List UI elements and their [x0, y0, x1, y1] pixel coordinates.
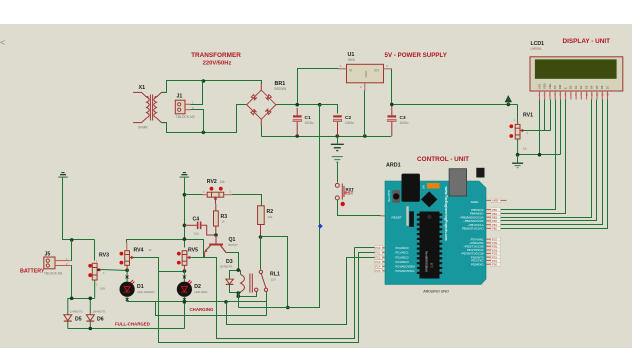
wire J1 pin2: [191, 110, 204, 133]
potentiometer RV1: [509, 124, 513, 128]
power +5V arrow: [505, 96, 511, 102]
capacitor C1: [296, 108, 298, 115]
resistor R3: [215, 204, 217, 211]
svg-text:CHARGING: CHARGING: [190, 307, 214, 312]
junction: [390, 103, 394, 107]
wire LCD signal 1 to arduino: [501, 100, 556, 210]
wire R2 to 12V rail: [261, 237, 288, 308]
svg-text:CONTROL - UNIT: CONTROL - UNIT: [417, 156, 469, 163]
svg-text:PB0/ICP1/CLKO: PB0/ICP1/CLKO: [462, 227, 484, 231]
Arduino MCU chip: [417, 214, 420, 216]
junction: [89, 297, 93, 301]
wire relay throw1: [239, 292, 257, 297]
wire 12V node: [298, 104, 320, 106]
LCD pin names: [537, 83, 609, 89]
svg-text:D6: D6: [600, 85, 604, 89]
ground (RV1): [512, 162, 523, 164]
svg-text:PC5/ADC5/SCL: PC5/ADC5/SCL: [396, 269, 416, 273]
svg-text:J1: J1: [177, 94, 183, 100]
svg-text:D4: D4: [590, 85, 594, 89]
wire LCD signal 2 to arduino: [501, 100, 566, 214]
junction: [286, 306, 290, 310]
svg-text:TBLOCK-M2: TBLOCK-M2: [176, 115, 195, 119]
svg-text:RST: RST: [345, 191, 354, 196]
wire relay throw2 down: [266, 292, 268, 316]
junction: [202, 131, 206, 135]
svg-text:Reset BTN: Reset BTN: [388, 190, 391, 202]
wire LCD signal 5 to arduino: [501, 100, 603, 225]
wire RV3 wiper to D1 node: [102, 270, 128, 271]
potentiometer RV3: [88, 264, 92, 268]
wire LCD signal 6 to arduino: [501, 100, 608, 229]
wire battery bottom rail: [68, 298, 95, 300]
svg-text:1k: 1k: [222, 220, 226, 224]
wire RV4 top rail to emitter node: [127, 240, 204, 258]
svg-text:E: E: [563, 87, 567, 89]
potentiometer RV4: [120, 252, 124, 256]
capacitor C3: [391, 104, 393, 115]
wire bridge - down: [261, 126, 263, 137]
wire R2 to relay common: [260, 237, 262, 270]
svg-text:C4: C4: [193, 217, 200, 223]
resistor R2: [258, 206, 265, 225]
battery B? cell symbols: [331, 144, 344, 150]
junction: [363, 134, 367, 138]
svg-text:D1: D1: [574, 85, 578, 89]
wire RV2 pin1: [185, 194, 203, 196]
wire bridge + to C1: [276, 104, 298, 106]
wire LCD VEE: [550, 100, 552, 131]
svg-text:D2: D2: [579, 85, 583, 89]
svg-text:PD0/RXD: PD0/RXD: [471, 262, 484, 266]
wire relay coil bottom to rail: [238, 293, 240, 308]
svg-text:RW: RW: [558, 84, 562, 89]
svg-text:10k: 10k: [268, 215, 273, 219]
origin marker (blue diamond): [318, 224, 323, 229]
svg-text:PB0: PB0: [492, 227, 497, 231]
junction: [202, 79, 206, 83]
wire U1 VO down: [391, 69, 393, 105]
transistor Q1 BC547: [215, 235, 217, 244]
svg-text:PC1: PC1: [375, 251, 381, 255]
svg-text:ARD1: ARD1: [386, 163, 401, 169]
LCD LCD1 LM016L: [530, 57, 623, 91]
svg-text:12V: 12V: [271, 278, 276, 282]
wire cathode sense to PC2: [227, 258, 375, 325]
svg-text:10k: 10k: [220, 180, 226, 184]
wire sense rail to relay throw: [156, 302, 267, 316]
svg-text:PB5: PB5: [492, 208, 497, 212]
svg-text:PC5: PC5: [375, 269, 381, 273]
wire LCD RW to gnd: [560, 100, 562, 155]
wire RV4 wiper to D2 node: [134, 258, 185, 272]
svg-text:PC4: PC4: [375, 265, 381, 269]
svg-text:VO: VO: [374, 69, 379, 73]
connector J1: [175, 100, 185, 114]
svg-text:5V - POWER SUPPLY: 5V - POWER SUPPLY: [385, 52, 448, 59]
svg-text:D7: D7: [605, 85, 609, 89]
wire D3 top: [230, 271, 239, 279]
potentiometer RV2: [210, 187, 214, 191]
junction: [538, 153, 542, 157]
wire RV2 pin2 to R2: [232, 195, 262, 206]
svg-text:www.TheEngineeringProjects.com: www.TheEngineeringProjects.com: [444, 186, 448, 241]
svg-text:VEE: VEE: [548, 84, 552, 89]
wire ground rail: [262, 136, 392, 138]
junction: [183, 224, 187, 228]
wire left ground rail: [63, 178, 95, 240]
svg-text:PC0: PC0: [375, 246, 381, 250]
svg-text:7805: 7805: [348, 58, 355, 62]
wire to battery: [337, 137, 339, 144]
junction: [336, 134, 340, 138]
junction: [295, 103, 299, 107]
LED D1 LED-GREEN: [126, 270, 128, 281]
LCD pins: [540, 91, 608, 100]
svg-text:ATMEGA328P-PU: ATMEGA328P-PU: [425, 251, 429, 272]
Arduino crystal: [406, 206, 408, 226]
svg-text:TBLOCK-M2: TBLOCK-M2: [44, 272, 62, 276]
junction: [183, 300, 187, 304]
capacitor C4: [184, 224, 196, 226]
wire LED cathode rail: [128, 301, 267, 303]
svg-text:PC0/ADC0: PC0/ADC0: [396, 246, 410, 250]
svg-text:PD0: PD0: [492, 263, 498, 267]
Arduino right pin names: [459, 200, 484, 266]
wire LCD VDD: [544, 100, 546, 131]
wire secondary top to bridge: [162, 81, 262, 93]
wire 5V to RV1: [517, 105, 519, 122]
svg-text:1000u: 1000u: [305, 121, 314, 125]
svg-text:D0: D0: [569, 85, 573, 89]
junction: [214, 233, 218, 237]
diode D5 1N4007: [67, 298, 69, 314]
wire button to arduino reset: [338, 200, 381, 216]
svg-text:PC2/ADC2: PC2/ADC2: [396, 256, 410, 260]
junction: [259, 235, 263, 239]
Arduino reset pin stub: [381, 215, 386, 217]
wire mid ground vertical: [184, 178, 186, 248]
svg-text:PC3/ADC3: PC3/ADC3: [396, 260, 410, 264]
wire sense rail to PC1: [159, 253, 375, 343]
svg-text:RS: RS: [553, 85, 557, 89]
button red indicator: [341, 202, 345, 206]
junction: [237, 294, 241, 298]
wire LCD signal 4 to arduino: [501, 100, 597, 221]
junction: [125, 268, 129, 272]
junction: [183, 237, 187, 241]
Arduino USB connector: [449, 169, 467, 196]
svg-text:RV1: RV1: [523, 113, 533, 119]
junction: [89, 327, 93, 331]
junction: [183, 193, 187, 197]
svg-text:D5: D5: [595, 85, 599, 89]
svg-text:VDD: VDD: [543, 83, 547, 89]
svg-text:TRANSFORMER: TRANSFORMER: [191, 52, 241, 59]
svg-text:ON: ON: [423, 185, 426, 189]
svg-text:D3: D3: [584, 85, 588, 89]
junction: [516, 153, 520, 157]
svg-text:1126: 1126: [431, 262, 434, 268]
wire D3 bottom: [230, 285, 239, 293]
junction: [237, 268, 241, 272]
svg-text:AREF: AREF: [492, 199, 499, 203]
svg-text:D5: D5: [75, 316, 82, 322]
wire D5D6 bottom rail: [68, 328, 185, 330]
svg-text:1000u: 1000u: [345, 121, 354, 125]
svg-text:XFMR: XFMR: [138, 126, 148, 130]
Arduino USB chip (diamond): [421, 191, 437, 207]
ground (mid): [183, 172, 186, 174]
svg-text:PC1/ADC1: PC1/ADC1: [396, 251, 410, 255]
junction: [237, 291, 241, 295]
Arduino left pin names: [396, 246, 416, 273]
wire C1 top to U1 VI: [298, 69, 339, 105]
Arduino right pin stubs: [486, 199, 491, 201]
junction: [318, 103, 322, 107]
svg-text:LED-RED: LED-RED: [194, 290, 208, 294]
svg-text:VSS: VSS: [537, 84, 541, 89]
wire to RV3 top: [94, 240, 96, 261]
connector J5: [44, 257, 55, 269]
capacitor C2: [333, 115, 342, 117]
push button RST: [335, 183, 339, 187]
svg-text:PC4/ADC4/SDA: PC4/ADC4/SDA: [396, 265, 416, 269]
wire Q1 collector to relay: [227, 253, 239, 271]
wire J5 pin2 down: [71, 266, 72, 299]
svg-text:DISPLAY - UNIT: DISPLAY - UNIT: [563, 38, 611, 45]
svg-text:GND: GND: [364, 70, 368, 78]
junction: [224, 300, 228, 304]
svg-text:1000u: 1000u: [400, 121, 409, 125]
svg-text:RV4: RV4: [134, 248, 144, 254]
Arduino power jack: [402, 174, 420, 202]
svg-text:RV2: RV2: [207, 179, 217, 185]
wire 5V rail: [392, 104, 518, 106]
svg-text:PC2: PC2: [375, 256, 381, 260]
svg-text:LED-GREEN: LED-GREEN: [137, 290, 155, 294]
wire LCD VSS to gnd: [539, 100, 541, 155]
Arduino left pin stubs: [382, 247, 385, 249]
svg-text:J5: J5: [45, 252, 51, 258]
svg-text:D6: D6: [97, 316, 104, 322]
svg-text:220V/50Hz: 220V/50Hz: [203, 61, 232, 67]
svg-text:1N4007G: 1N4007G: [220, 265, 234, 269]
relay RL1 contact: [259, 270, 262, 273]
svg-text:BR2008: BR2008: [275, 87, 287, 91]
transformer X1: [133, 92, 167, 122]
potentiometer RV5: [177, 252, 181, 256]
wire RV1 wiper to VEE: [525, 130, 551, 132]
svg-text:RV5: RV5: [188, 248, 198, 254]
Arduino reset button: [392, 190, 400, 203]
junction: [507, 103, 511, 107]
svg-text:ARDUINO UNO: ARDUINO UNO: [423, 290, 449, 294]
regulator U1 7805: [347, 64, 384, 83]
svg-text:AREF: AREF: [470, 200, 478, 204]
wire RV1 gnd rail: [518, 154, 561, 156]
wire U1 gnd: [364, 91, 366, 137]
svg-text:1N4007G: 1N4007G: [93, 310, 107, 314]
svg-text:1N4007G: 1N4007G: [70, 310, 84, 314]
junction: [183, 269, 187, 273]
svg-text:BC547: BC547: [229, 243, 239, 247]
ground (left): [61, 172, 64, 174]
diode D6 1N4007: [89, 298, 91, 314]
bridge rectifier BR1: [247, 90, 276, 119]
wire J5 pin1 up: [71, 240, 72, 261]
svg-text:X1: X1: [139, 85, 146, 91]
svg-text:LM016L: LM016L: [531, 47, 542, 51]
wire RV5 wiper sense to PC0: [192, 248, 355, 339]
wire PC0 lead: [355, 247, 375, 249]
wire LCD signal 3 to arduino: [501, 100, 592, 218]
svg-text:RESET: RESET: [392, 215, 402, 219]
junction: [70, 297, 74, 301]
wire 12V supply down to relay: [239, 105, 320, 308]
svg-text:PC3: PC3: [375, 260, 381, 264]
wire J1 pin1: [191, 81, 203, 105]
junction: [295, 134, 299, 138]
svg-text:RV3: RV3: [99, 253, 109, 259]
svg-text:BATTERY: BATTERY: [20, 269, 45, 275]
junction: [70, 238, 74, 242]
wire secondary bottom to bridge: [162, 105, 247, 133]
Arduino Uno ARD1 board: [385, 181, 486, 285]
svg-text:<: <: [0, 38, 5, 48]
svg-text:10K: 10K: [100, 287, 105, 291]
svg-text:1K: 1K: [523, 147, 527, 151]
svg-text:10u: 10u: [194, 232, 199, 236]
LED D2 LED-RED: [183, 271, 185, 282]
Arduino ICSP header: [476, 168, 484, 178]
svg-text:VI: VI: [349, 69, 352, 73]
wire to C2 top: [320, 105, 338, 114]
wire battery to button: [337, 163, 339, 183]
svg-text:FULL-CHARGED: FULL-CHARGED: [115, 322, 150, 327]
